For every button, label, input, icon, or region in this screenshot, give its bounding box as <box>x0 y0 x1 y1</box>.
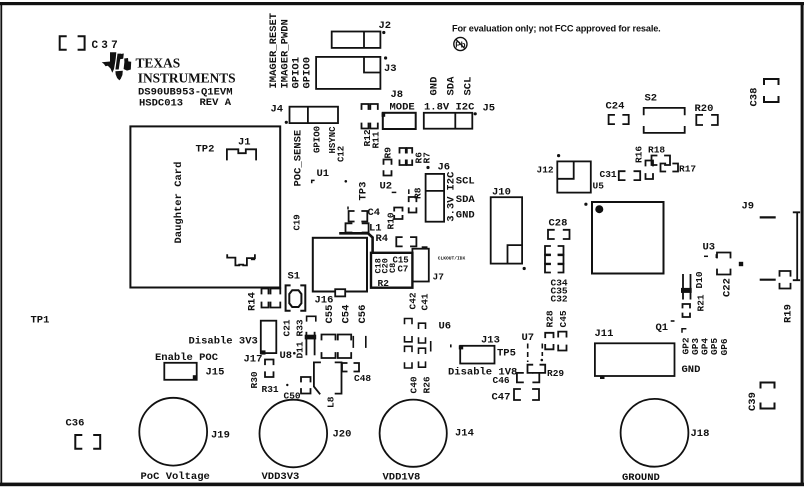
svg-text:U8: U8 <box>280 350 293 362</box>
net label GP2 <box>681 337 692 354</box>
capacitor C42 pad top <box>405 319 413 324</box>
testpoint label TP3 <box>358 182 370 201</box>
svg-text:C39: C39 <box>747 392 759 411</box>
capacitor C28 <box>548 230 570 239</box>
label J10 <box>492 187 511 199</box>
capacitor C36 <box>75 435 100 449</box>
board border left edge <box>0 2 2 486</box>
connector J10 <box>491 197 522 263</box>
capacitor C40 pad top <box>405 346 413 351</box>
board border bottom edge <box>0 483 804 487</box>
svg-text:R7: R7 <box>422 152 433 164</box>
net label VDD1V8 <box>383 472 421 484</box>
svg-text:R19: R19 <box>783 304 795 323</box>
label C15 <box>393 256 409 266</box>
resistor R14 pads a <box>262 289 269 308</box>
svg-text:J7: J7 <box>433 272 445 283</box>
svg-text:J14: J14 <box>455 428 474 440</box>
U2 pin mark dash <box>392 191 397 193</box>
svg-text:U7: U7 <box>522 332 535 344</box>
svg-text:PoC Voltage: PoC Voltage <box>141 471 210 483</box>
label J6 <box>438 162 451 174</box>
net label GPIO0 <box>302 57 314 89</box>
capacitor C45 pads <box>558 332 566 351</box>
svg-text:L8: L8 <box>326 396 337 408</box>
C4 pin mark <box>347 207 349 210</box>
svg-text:REV A: REV A <box>200 97 232 109</box>
svg-text:C42: C42 <box>408 292 419 309</box>
svg-text:R18: R18 <box>648 145 665 156</box>
resistor R9 pads <box>384 160 392 176</box>
U8 side pin lines <box>353 336 366 348</box>
header J5 <box>424 113 473 129</box>
label C56 <box>357 305 369 324</box>
label J19 <box>211 430 230 442</box>
switch S1 frame <box>286 285 306 310</box>
svg-text:R31: R31 <box>262 384 279 395</box>
svg-text:J8: J8 <box>391 89 404 101</box>
label U8 <box>280 350 293 362</box>
svg-text:SCL: SCL <box>456 176 475 188</box>
jumper J15 <box>164 363 196 380</box>
svg-text:D10: D10 <box>694 271 705 288</box>
label J1 <box>238 137 251 149</box>
label C12 <box>337 146 347 162</box>
Pb-free symbol <box>454 37 467 50</box>
label L8 <box>326 396 337 408</box>
svg-text:U1: U1 <box>317 168 330 180</box>
board border right edge <box>801 2 804 486</box>
resistor R17 <box>661 164 679 172</box>
connector J10 pin1 dot <box>523 267 526 270</box>
svg-text:TP5: TP5 <box>497 348 516 360</box>
label R6 <box>414 152 425 164</box>
Q1 pin dash <box>671 320 675 322</box>
connector J16 body <box>313 238 367 292</box>
svg-text:J5: J5 <box>483 103 496 115</box>
jumper J17 pin1 tab <box>260 350 265 354</box>
capacitor C40 pad bottom <box>405 363 413 368</box>
net label GP5 <box>709 338 720 355</box>
svg-text:U5: U5 <box>593 181 605 192</box>
net label IMAGER_PWDN <box>280 19 292 88</box>
label R12 <box>362 129 373 146</box>
label R18 <box>648 145 665 156</box>
svg-text:C32: C32 <box>551 294 568 305</box>
switch S2 bottom outline <box>644 127 685 133</box>
label C45 <box>558 310 569 327</box>
svg-text:C38: C38 <box>749 88 761 107</box>
svg-text:C55: C55 <box>324 305 336 324</box>
resistor R29 pads <box>528 365 546 373</box>
svg-text:J20: J20 <box>333 429 352 441</box>
capacitor C34 pads <box>545 246 564 255</box>
svg-text:C4: C4 <box>368 207 381 219</box>
header J6 pin1 dot <box>426 166 429 169</box>
label J9 <box>742 201 755 213</box>
label J15 <box>206 367 225 379</box>
svg-text:1.8V I2C: 1.8V I2C <box>424 102 475 114</box>
resistor R16 pads <box>646 161 654 180</box>
svg-text:U6: U6 <box>439 321 452 333</box>
connector J2 <box>332 32 381 48</box>
label R31 <box>262 384 279 395</box>
svg-text:R16: R16 <box>634 146 645 163</box>
header J5 pin1 dot <box>474 112 477 115</box>
label J5 <box>483 103 496 115</box>
label Enable POC <box>155 352 219 364</box>
label DS90UB953-Q1EVM <box>138 87 233 99</box>
label S2 <box>645 93 658 105</box>
connector J11 pin1 tab <box>600 376 605 379</box>
svg-text:R4: R4 <box>376 233 389 245</box>
connector J10 inner cell <box>508 245 523 264</box>
logo text TEXAS <box>136 56 181 71</box>
label C47 <box>492 392 511 404</box>
label C37 <box>92 40 121 52</box>
label R20 <box>695 103 714 115</box>
svg-text:GROUND: GROUND <box>622 472 660 484</box>
svg-text:C36: C36 <box>66 418 85 430</box>
svg-text:Disable 3V3: Disable 3V3 <box>189 336 258 348</box>
daughter card outline <box>130 126 280 287</box>
svg-text:GPIO0: GPIO0 <box>313 126 323 153</box>
inductor L8 left bracket <box>314 362 320 393</box>
label Disable 1V8 <box>448 367 517 379</box>
label U2 <box>380 181 393 193</box>
resistor R20 <box>696 115 718 125</box>
diode D11 cathode band <box>305 335 317 340</box>
resistor R8 pads <box>409 197 417 213</box>
label C4 <box>368 207 381 219</box>
label D11 <box>295 341 306 358</box>
capacitor U8 pad a <box>322 335 336 359</box>
connector J4 divider <box>307 107 309 123</box>
capacitor C38 <box>764 79 779 102</box>
svg-text:R28: R28 <box>545 310 556 327</box>
svg-text:SDA: SDA <box>456 194 476 206</box>
regulator J12 pin1 dot <box>557 154 560 157</box>
label R2 <box>378 278 390 289</box>
label R33 <box>295 319 306 336</box>
svg-text:C21: C21 <box>282 319 293 336</box>
svg-text:R2: R2 <box>378 278 390 289</box>
svg-text:C31: C31 <box>600 169 617 180</box>
resistor R21 pads <box>683 304 691 317</box>
net label IMAGER_RESET <box>268 13 280 89</box>
capacitor C42 pad bottom <box>405 337 413 342</box>
capacitor C37 <box>60 36 85 50</box>
label I2C <box>446 171 458 191</box>
capacitor C13 pads <box>396 237 416 246</box>
label Daughter Card <box>173 162 185 244</box>
banana jack J14 <box>380 400 447 467</box>
svg-text:J12: J12 <box>537 165 554 176</box>
svg-text:GND: GND <box>456 210 475 222</box>
U2 pin mark tick <box>408 189 410 194</box>
capacitor C48 pads <box>342 363 359 372</box>
svg-text:J1: J1 <box>238 137 251 149</box>
label TP5 <box>497 348 516 360</box>
label 1.8V I2C <box>424 102 475 114</box>
svg-text:S2: S2 <box>645 93 658 105</box>
label C38 <box>749 88 761 107</box>
connector J4 <box>290 107 339 123</box>
label D10 <box>694 271 705 288</box>
resistor R6 pads <box>400 148 406 165</box>
label U6 <box>439 321 452 333</box>
U1 pin1 mark <box>312 180 315 183</box>
label C22 <box>722 278 734 297</box>
svg-text:R29: R29 <box>547 368 564 379</box>
switch S2 top outline <box>644 108 685 115</box>
label J16 <box>315 295 334 307</box>
label C39 <box>747 392 759 411</box>
svg-text:Q1: Q1 <box>656 322 669 334</box>
svg-text:TP1: TP1 <box>31 315 50 327</box>
svg-text:IMAGER_RESET: IMAGER_RESET <box>268 13 280 89</box>
net label VDD3V3 <box>262 471 300 483</box>
svg-text:For evaluation only; not FCC a: For evaluation only; not FCC approved fo… <box>452 24 661 34</box>
label J14 <box>455 428 474 440</box>
connector J9 pad bottom <box>760 279 776 281</box>
connector J9 edge bracket <box>794 212 800 280</box>
label J11 <box>595 328 614 340</box>
label R21 <box>696 294 707 311</box>
svg-text:C28: C28 <box>549 218 568 230</box>
resistor R19 pads <box>780 271 791 289</box>
U1 corner mark <box>345 180 348 183</box>
label R16 <box>634 146 645 163</box>
D11 pin dot <box>293 352 296 355</box>
svg-text:J17: J17 <box>244 354 263 366</box>
label S1 <box>288 271 301 283</box>
svg-text:R11: R11 <box>371 131 382 148</box>
label R19 <box>783 304 795 323</box>
label L1 <box>369 223 382 235</box>
svg-text:R20: R20 <box>695 103 714 115</box>
label R8 <box>413 187 424 199</box>
label C50 <box>284 391 301 402</box>
U3 pin marks <box>704 254 716 258</box>
connector J4 pin1 dot <box>285 121 288 124</box>
svg-text:GND: GND <box>429 77 441 96</box>
label R7 <box>422 152 433 164</box>
label C42 <box>408 292 419 309</box>
header J5 divider <box>454 113 456 129</box>
label R28 <box>545 310 556 327</box>
svg-text:U3: U3 <box>703 242 716 254</box>
label C8 <box>388 263 398 273</box>
svg-text:R14: R14 <box>247 292 259 311</box>
diode D11 body <box>306 332 314 356</box>
svg-text:VDD3V3: VDD3V3 <box>262 471 300 483</box>
svg-text:SDA: SDA <box>446 76 458 96</box>
resistor R12 pads <box>362 104 369 129</box>
label J13 <box>481 335 500 347</box>
connector J2 divider <box>363 32 365 48</box>
serializer U3 outline <box>592 202 664 274</box>
label J20 <box>333 429 352 441</box>
label U5 <box>593 181 605 192</box>
label C34 <box>551 278 568 289</box>
connector J7 <box>412 249 428 282</box>
svg-text:TEXAS: TEXAS <box>136 56 181 71</box>
U3 pin1 dot <box>595 205 603 213</box>
label R4 <box>376 233 389 245</box>
label C32 <box>551 294 568 305</box>
svg-text:TP3: TP3 <box>358 182 370 201</box>
wire thick trace from L1 to R2 block <box>341 233 373 252</box>
jumper J15 pin tab <box>193 375 198 379</box>
net label SDA <box>446 76 458 96</box>
label R17 <box>679 164 696 175</box>
label J12 <box>537 165 554 176</box>
svg-text:POC_SENSE: POC_SENSE <box>293 130 305 187</box>
resistor R14 pads b <box>271 289 281 308</box>
banana jack J20 <box>260 400 328 468</box>
resistor R7 pads <box>407 148 412 165</box>
svg-text:C56: C56 <box>357 305 369 324</box>
header J6 divider <box>426 190 445 192</box>
label R26 <box>422 376 433 393</box>
svg-text:HSDC013: HSDC013 <box>139 98 183 110</box>
C55 pin mark <box>307 316 316 321</box>
svg-text:C46: C46 <box>493 375 510 386</box>
label R11 <box>371 131 382 148</box>
header J8 MODE <box>383 113 416 129</box>
net label GPIO0 <box>313 126 323 153</box>
svg-text:R21: R21 <box>696 294 707 311</box>
capacitor C35 pads <box>545 255 564 263</box>
net label SCL <box>456 176 475 188</box>
label C24 <box>606 101 625 113</box>
label C28 <box>549 218 568 230</box>
node mark square <box>739 262 743 266</box>
label R14 <box>247 292 259 311</box>
connector J1 outline <box>227 149 256 159</box>
capacitor C24 <box>609 115 629 124</box>
label C55 <box>324 305 336 324</box>
capacitor C22 <box>717 253 731 275</box>
label C46 <box>493 375 510 386</box>
U3 outside pin1 dot <box>584 203 587 206</box>
daughter card connector pad <box>251 257 255 260</box>
Texas Instruments logo mark <box>102 52 132 80</box>
R31 pin dot <box>286 384 288 386</box>
svg-text:C40: C40 <box>409 376 420 393</box>
logo text INSTRUMENTS <box>138 71 236 86</box>
J13 left tick <box>450 344 452 347</box>
capacitor C50 pads <box>301 377 311 394</box>
resistor R11 pads <box>370 104 378 129</box>
daughter card mating connector outline <box>227 255 255 265</box>
label C40 <box>409 376 420 393</box>
svg-text:J11: J11 <box>595 328 614 340</box>
svg-text:U2: U2 <box>380 181 393 193</box>
svg-text:GP6: GP6 <box>719 338 730 355</box>
svg-text:R30: R30 <box>249 371 260 388</box>
label Q1 <box>656 322 669 334</box>
svg-text:J4: J4 <box>271 104 284 116</box>
net label GP4 <box>700 338 711 355</box>
switch S1 button <box>289 290 301 307</box>
label C20 <box>381 258 391 273</box>
svg-text:R17: R17 <box>679 164 696 175</box>
jumper J17 <box>261 321 277 353</box>
jumper J13 pin1 tab <box>459 345 463 349</box>
label C36 <box>66 418 85 430</box>
label R10 <box>386 212 397 229</box>
capacitor C31 <box>619 171 640 180</box>
filter block R2 outline <box>371 253 412 288</box>
svg-text:C41: C41 <box>420 293 431 310</box>
inductor L1 <box>346 223 369 232</box>
net label GND <box>456 210 475 222</box>
resistor R26 pad bottom <box>419 362 426 367</box>
U7 dashed pin line b <box>541 344 543 357</box>
svg-text:C48: C48 <box>354 373 371 384</box>
net label GPIO1 <box>291 57 303 89</box>
svg-text:TP2: TP2 <box>196 144 215 156</box>
net label GND <box>429 77 441 96</box>
svg-text:J3: J3 <box>384 63 397 75</box>
svg-text:C54: C54 <box>341 305 353 324</box>
board border top edge <box>0 2 804 5</box>
jumper J13 <box>460 346 494 364</box>
svg-text:J15: J15 <box>206 367 225 379</box>
svg-text:MODE: MODE <box>390 102 415 114</box>
diode D10 cathode band <box>681 288 692 293</box>
label J7 <box>433 272 445 283</box>
capacitor C4 <box>349 211 368 222</box>
label C18 <box>374 258 384 273</box>
net label SCL <box>463 77 475 96</box>
svg-text:S1: S1 <box>288 271 301 283</box>
banana jack J19 <box>139 398 207 466</box>
label C31 <box>600 169 617 180</box>
label 3.3V <box>446 196 458 222</box>
label TP2 <box>196 144 215 156</box>
regulator U5 inner cell <box>557 161 573 178</box>
capacitor C46 <box>517 373 539 383</box>
svg-text:C47: C47 <box>492 392 511 404</box>
FCC notice text <box>452 24 661 34</box>
label C21 <box>282 319 293 336</box>
label TP1 <box>31 315 50 327</box>
capacitor C47 <box>514 389 539 400</box>
resistor R26 pad top <box>419 348 426 353</box>
svg-text:GND: GND <box>682 364 701 376</box>
svg-text:VDD1V8: VDD1V8 <box>383 472 421 484</box>
svg-text:Daughter Card: Daughter Card <box>173 162 185 244</box>
svg-text:J19: J19 <box>211 430 230 442</box>
svg-text:J18: J18 <box>691 428 710 440</box>
net label POC_SENSE <box>293 130 305 187</box>
connector J3 inner cell <box>364 57 380 73</box>
svg-text:GPIO0: GPIO0 <box>302 57 314 89</box>
net label GP3 <box>690 338 701 355</box>
label J8 <box>391 89 404 101</box>
net label GP6 <box>719 338 730 355</box>
svg-text:R26: R26 <box>422 376 433 393</box>
label Disable 3V3 <box>189 336 258 348</box>
net label GROUND <box>622 472 660 484</box>
svg-text:D11: D11 <box>295 341 306 358</box>
label C41 <box>420 293 431 310</box>
label C7 <box>398 265 409 275</box>
resistor R10 pads <box>394 208 402 220</box>
